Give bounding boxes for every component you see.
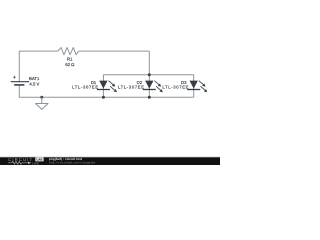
LED D3	[187, 81, 207, 93]
LED D2	[143, 81, 163, 93]
node: D2 cathode junction dot	[148, 96, 151, 99]
battery BAT1 plus sign	[13, 76, 16, 79]
svg-text:4.5 V: 4.5 V	[29, 81, 39, 86]
CircuitLab logo resistor squiggle	[8, 161, 28, 164]
svg-text:http://circuitlab.com/c/pajq4j: http://circuitlab.com/c/pajq4ja	[49, 161, 96, 165]
svg-text:BAT1: BAT1	[29, 76, 40, 81]
wire: battery positive up and top feed to resistor	[19, 51, 58, 82]
wire: feed drop into D2 branch	[148, 51, 150, 97]
wire: D1 branch vertical	[102, 75, 104, 98]
wire: LED top rail	[103, 74, 193, 76]
svg-text:R1: R1	[67, 56, 73, 61]
CircuitLab logo arrowhead	[28, 161, 31, 164]
wire: bottom rail from battery to D3	[19, 85, 193, 97]
wire: resistor to feed drop	[79, 50, 150, 52]
svg-text:LTL-307EE: LTL-307EE	[72, 84, 99, 89]
svg-text:LAB: LAB	[32, 162, 40, 165]
ground	[36, 97, 48, 109]
footer bar	[0, 157, 220, 158]
battery BAT1 long plate	[11, 81, 30, 83]
svg-text:LTL-307EE: LTL-307EE	[118, 84, 145, 89]
LED D1	[97, 81, 117, 93]
battery BAT1 short plate	[14, 84, 24, 86]
node: D1 cathode junction dot	[102, 96, 105, 99]
resistor R1	[58, 48, 79, 55]
svg-text:62 Ω: 62 Ω	[65, 62, 75, 67]
node: ground junction dot	[40, 96, 43, 99]
node: junction dot at D2 feed	[148, 73, 151, 76]
CircuitLab logo LAB box	[35, 157, 43, 161]
wire: D3 branch vertical	[193, 75, 195, 98]
svg-text:CIRCUIT: CIRCUIT	[8, 157, 33, 162]
svg-text:LTL-307EE: LTL-307EE	[162, 84, 189, 89]
